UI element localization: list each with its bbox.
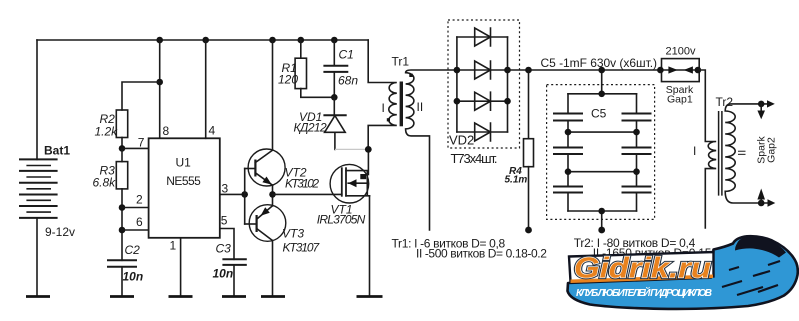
svg-text:U1: U1 (176, 156, 192, 170)
spark gap Gap2 (756, 104, 778, 203)
svg-text:6: 6 (136, 215, 143, 229)
svg-text:КД212: КД212 (294, 121, 328, 135)
resistor R4 (505, 70, 534, 230)
node VT2 collector rail (269, 37, 276, 44)
node VD1 junction (331, 94, 338, 101)
node R1 rail (298, 37, 305, 44)
node emitters junction (269, 191, 276, 198)
ground C3 (222, 295, 246, 298)
svg-text:Bat1: Bat1 (44, 144, 70, 158)
transistor VT1 IRL3705N (MOSFET) (317, 164, 370, 226)
svg-text:1: 1 (170, 239, 177, 253)
transformer Tr2 (693, 70, 768, 228)
capacitor C3 (213, 242, 246, 296)
diode bridge VD2 T73 (448, 20, 520, 166)
svg-text:VD2: VD2 (449, 133, 474, 148)
svg-text:2100v: 2100v (666, 46, 696, 58)
node output top (758, 101, 765, 108)
wire gate (273, 193, 342, 195)
svg-text:KT3107: KT3107 (283, 241, 321, 255)
wire base column (244, 169, 246, 225)
svg-text:9-12v: 9-12v (45, 225, 75, 239)
node C1 rail (331, 37, 338, 44)
wire VD2 to spark gap (508, 69, 662, 71)
terminal arrow bottom (768, 199, 776, 206)
svg-text:5: 5 (221, 214, 228, 228)
svg-text:C2: C2 (125, 243, 141, 257)
node pin6 junction (119, 227, 126, 234)
svg-text:I: I (693, 144, 696, 158)
svg-text:Gidrik.ru: Gidrik.ru (574, 253, 711, 285)
svg-text:3: 3 (222, 182, 229, 196)
node output bottom (758, 200, 765, 207)
svg-text:1.2k: 1.2k (95, 125, 119, 139)
svg-text:8: 8 (163, 124, 170, 138)
terminal arrow top (767, 100, 775, 107)
transistor VT3 KT3107 (249, 205, 320, 255)
node R2 R3 pin7 junction (119, 145, 126, 152)
IC U1 NE555 (136, 124, 229, 253)
transistor VT2 KT3102 (248, 149, 319, 191)
svg-text:6.8k: 6.8k (93, 176, 117, 190)
diode VD1 KD212 (294, 97, 346, 149)
wire pin 6 (122, 229, 149, 231)
svg-text:5.1m: 5.1m (505, 175, 528, 186)
svg-text:4: 4 (209, 124, 216, 138)
node R4 tap (525, 67, 532, 74)
resistor R2 (95, 110, 128, 148)
svg-text:IRL3705N: IRL3705N (317, 213, 366, 227)
wire pin 5 to C3 (220, 229, 234, 260)
svg-text:120: 120 (278, 73, 298, 87)
svg-text:Gap2: Gap2 (766, 137, 778, 163)
node C5 bottom (598, 227, 605, 234)
node R2 branch (156, 79, 163, 86)
svg-text:Т73х4шт.: Т73х4шт. (451, 151, 498, 166)
battery Bat1 (20, 144, 75, 240)
svg-text:7: 7 (138, 136, 145, 150)
wire VT3 base (245, 223, 257, 225)
capacitor C2 (108, 243, 143, 295)
resistor R1 (278, 40, 334, 97)
svg-text:C5: C5 (591, 107, 607, 121)
svg-text:Tr2: Tr2 (716, 95, 734, 109)
svg-text:10n: 10n (123, 270, 144, 284)
node bases junction (241, 191, 248, 198)
wire R3 bottom column (121, 189, 123, 260)
svg-text:C1: C1 (339, 48, 354, 62)
wire pin 2 (122, 207, 149, 209)
node pin8 rail (156, 37, 163, 44)
svg-text:II -500 витков D= 0.18-0.2: II -500 витков D= 0.18-0.2 (416, 247, 547, 261)
svg-text:I: I (382, 101, 385, 115)
svg-text:68n: 68n (338, 74, 358, 88)
wire battery negative (36, 218, 38, 295)
wire pin 8 (159, 40, 161, 138)
logo Gidrik.ru (568, 236, 798, 309)
ground C2 (110, 295, 134, 298)
wire pin 7 (122, 147, 149, 149)
wire VT2 base (245, 168, 256, 170)
wire top supply rail (37, 39, 368, 41)
wire emitter column (272, 185, 274, 206)
wire VT1 source (369, 196, 371, 295)
svg-text:C5 -1mF 630v (х6шт.): C5 -1mF 630v (х6шт.) (541, 56, 658, 70)
svg-text:II: II (737, 150, 749, 156)
svg-text:Tr1: Tr1 (392, 55, 410, 69)
wire pin 3 (220, 193, 245, 195)
svg-text:10n: 10n (213, 267, 234, 281)
wire battery to rail (36, 40, 38, 159)
wire R2 feed (122, 82, 160, 110)
svg-text:КЛУБ ЛЮБИТЕЛЕЙ ГИДРОЦИКЛОВ: КЛУБ ЛЮБИТЕЛЕЙ ГИДРОЦИКЛОВ (576, 286, 712, 299)
ground VT3 (261, 295, 285, 298)
transformer Tr1 (368, 40, 457, 230)
capacitor C1 (324, 40, 358, 97)
wire VT1 drain (367, 149, 369, 174)
wire pin 4 (205, 40, 207, 138)
ground pin1 (169, 295, 193, 298)
wire VT2 collector (272, 40, 274, 150)
node Tr1 drain junction (365, 146, 372, 153)
svg-text:2: 2 (136, 193, 143, 207)
node pin4 rail (202, 37, 209, 44)
wire pin 1 (180, 238, 182, 295)
node pin2 junction (119, 204, 126, 211)
wire VT3 collector (272, 241, 274, 296)
ground VT1 (357, 295, 383, 298)
capacitor bank C5 (541, 56, 658, 230)
svg-text:C3: C3 (216, 242, 232, 256)
ground battery (26, 295, 50, 298)
node R4 bottom (525, 227, 532, 234)
svg-text:KT3102: KT3102 (285, 177, 319, 191)
resistor R3 (93, 148, 128, 189)
node C5 tap (598, 67, 605, 74)
spark gap Gap1 (657, 46, 701, 106)
svg-text:Gap1: Gap1 (667, 94, 693, 106)
svg-text:II: II (417, 100, 424, 114)
wire VD1 to drain faint (335, 148, 365, 150)
svg-text:VT3: VT3 (282, 227, 304, 241)
svg-text:NE555: NE555 (166, 174, 201, 188)
